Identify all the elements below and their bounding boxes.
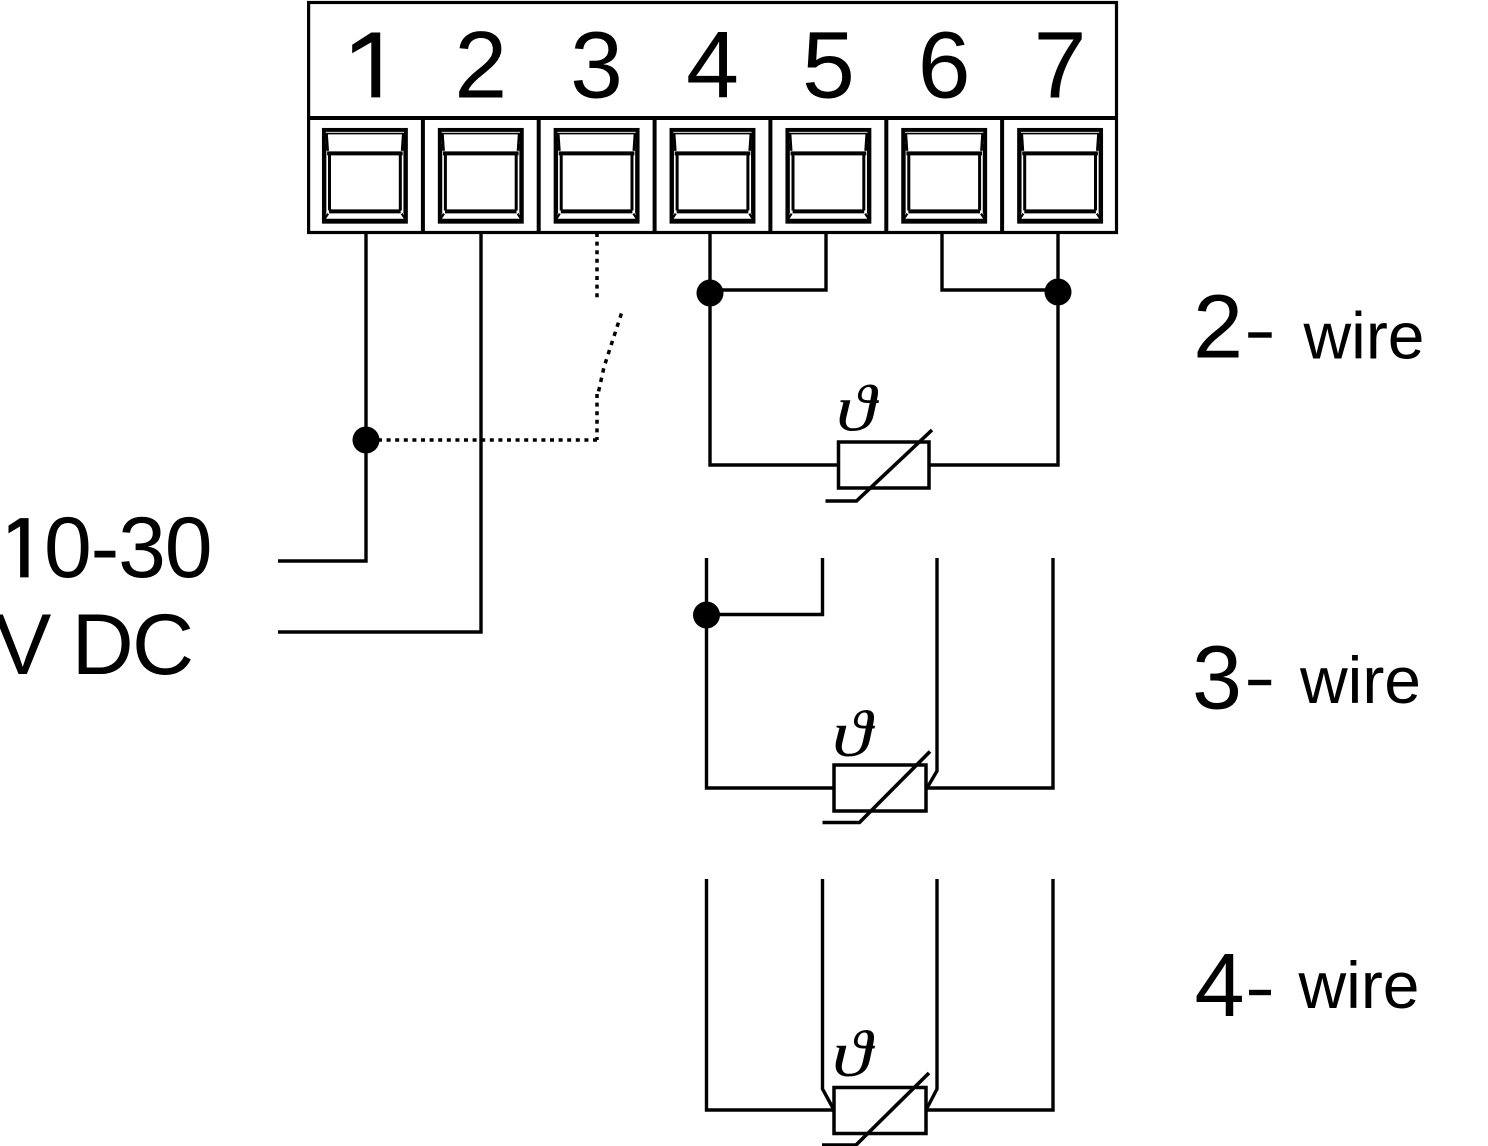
3-wire lead C with bend xyxy=(927,558,937,788)
terminal clamp 3 xyxy=(556,130,638,222)
svg-text:5: 5 xyxy=(802,13,855,119)
junction node terminal 4 xyxy=(697,280,724,307)
cell separator 5-6 xyxy=(884,118,888,231)
dashed switch lever xyxy=(598,314,621,395)
svg-text:ϑ: ϑ xyxy=(836,371,880,445)
jumper wire terminal 5 to 4 xyxy=(710,232,826,290)
svg-text:wire: wire xyxy=(1303,299,1425,373)
wire terminal 2 to V DC supply xyxy=(278,232,481,632)
svg-text:V DC: V DC xyxy=(0,597,192,693)
RTD diagonal strike 4-wire xyxy=(822,1073,929,1145)
terminal block outline xyxy=(309,3,1117,233)
cell separator 2-3 xyxy=(537,118,541,231)
terminal clamp 7 xyxy=(1019,130,1101,222)
label 4-wire hyphen xyxy=(1249,990,1271,995)
terminal clamp 1 xyxy=(324,130,406,222)
supply label 10-30 xyxy=(9,518,29,577)
svg-text:7: 7 xyxy=(1034,13,1087,119)
cell separator 4-5 xyxy=(768,118,772,231)
label 3-wire hyphen xyxy=(1248,680,1271,685)
terminal clamp 5 xyxy=(787,130,869,222)
svg-text:3: 3 xyxy=(570,13,623,119)
dotted wire from terminal 3 xyxy=(595,233,599,299)
svg-text:3: 3 xyxy=(1192,629,1242,729)
svg-text:2: 2 xyxy=(454,13,507,119)
3-wire lead D xyxy=(926,558,1053,788)
svg-text:wire: wire xyxy=(1299,643,1421,717)
4-wire lead D xyxy=(926,879,1053,1110)
wire terminal 7 to RTD right xyxy=(929,232,1058,465)
cell separator 6-7 xyxy=(1000,118,1004,231)
svg-text:4: 4 xyxy=(686,13,739,119)
RTD diagonal strike 3-wire xyxy=(823,752,931,823)
jumper wire terminal 6 to 7 xyxy=(942,232,1058,290)
junction node on wire 1 xyxy=(353,427,380,454)
4-wire lead C with bend xyxy=(926,879,937,1110)
wire terminal 4 to RTD left xyxy=(710,232,839,465)
svg-text:0-30: 0-30 xyxy=(44,500,211,596)
svg-text:4: 4 xyxy=(1195,936,1245,1036)
3-wire lead A xyxy=(707,558,835,788)
dotted wire below switch xyxy=(595,394,599,440)
terminal block divider line xyxy=(307,116,1117,120)
svg-text:wire: wire xyxy=(1298,948,1420,1022)
cell separator 1-2 xyxy=(421,118,425,231)
terminal clamp 6 xyxy=(903,130,985,222)
wire terminal 1 to 10-30 supply xyxy=(278,232,366,561)
RTD resistor 2-wire xyxy=(839,442,930,488)
cell separator 3-4 xyxy=(653,118,657,231)
svg-text:6: 6 xyxy=(918,13,971,119)
pin number 1 xyxy=(352,33,380,98)
RTD diagonal strike 2-wire xyxy=(826,430,933,501)
RTD resistor 4-wire xyxy=(834,1088,926,1134)
junction node terminal 7 xyxy=(1045,279,1072,306)
svg-text:ϑ: ϑ xyxy=(832,1017,876,1091)
3-wire lead B jumper xyxy=(707,558,823,615)
svg-text:2: 2 xyxy=(1193,278,1243,378)
junction node 3-wire xyxy=(693,602,720,629)
terminal clamp 2 xyxy=(440,130,522,222)
4-wire lead B with bend xyxy=(823,879,835,1110)
4-wire lead A xyxy=(707,879,835,1110)
RTD resistor 3-wire xyxy=(834,765,926,811)
dotted wire to junction node xyxy=(375,438,597,442)
terminal clamp 4 xyxy=(672,130,754,222)
svg-text:ϑ: ϑ xyxy=(832,697,876,771)
label 2-wire hyphen xyxy=(1248,332,1272,337)
